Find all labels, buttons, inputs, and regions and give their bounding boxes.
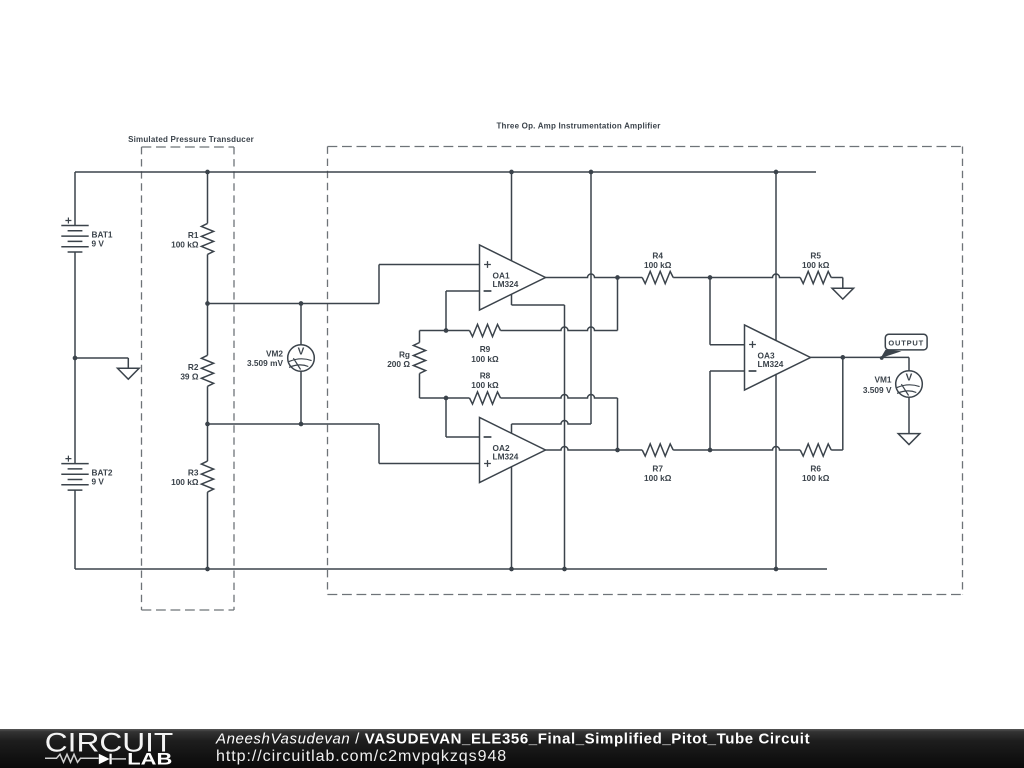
wire R5 to ground bbox=[831, 278, 843, 289]
svg-text:VM2: VM2 bbox=[266, 348, 283, 358]
resistor R6 bbox=[800, 444, 831, 456]
svg-text:R2: R2 bbox=[188, 362, 199, 372]
svg-text:100 kΩ: 100 kΩ bbox=[644, 473, 672, 483]
wire OA3 V- stem to bottom rail bbox=[775, 374, 777, 569]
resistor R3 bbox=[201, 461, 213, 492]
voltmeter VM1 bbox=[896, 371, 923, 398]
wire node D to R6 bbox=[710, 447, 800, 450]
ground VM1 bbox=[898, 434, 920, 445]
flag OUTPUT bbox=[885, 334, 927, 350]
wire bottom negative rail bbox=[75, 568, 827, 570]
wire R2 to node B bbox=[207, 386, 209, 424]
svg-text:100 kΩ: 100 kΩ bbox=[802, 473, 830, 483]
node OA1 output bbox=[615, 275, 620, 280]
wire OA2 V- vertical bbox=[590, 172, 592, 424]
svg-text:R3: R3 bbox=[188, 468, 199, 478]
svg-text:39 Ω: 39 Ω bbox=[180, 371, 199, 381]
node output (R6 feedback) bbox=[840, 355, 845, 360]
svg-text:100 kΩ: 100 kΩ bbox=[171, 477, 199, 487]
node OA2 output bbox=[615, 448, 620, 453]
battery BAT2 bbox=[61, 464, 88, 491]
svg-text:3.509 mV: 3.509 mV bbox=[247, 358, 283, 368]
svg-text:R8: R8 bbox=[480, 371, 491, 381]
wire VM1 to ground bbox=[908, 397, 910, 433]
svg-text:100 kΩ: 100 kΩ bbox=[471, 380, 499, 390]
resistor Rg bbox=[413, 343, 425, 374]
wire R7 to node D bbox=[673, 449, 710, 451]
wire R9 to OA1 output node bbox=[617, 278, 619, 331]
wire Rg top jog bbox=[420, 331, 447, 343]
wire node C to OA3 + bbox=[710, 278, 745, 345]
wire R4 to node C bbox=[673, 277, 710, 279]
battery BAT1 bbox=[61, 226, 88, 253]
wire node D to OA3 - bbox=[710, 371, 745, 450]
wire VM2 bottom bbox=[300, 371, 302, 424]
CircuitLab logo diode symbol bbox=[99, 754, 110, 765]
resistor R9 and wire bbox=[446, 330, 470, 332]
wire VM2 top bbox=[300, 304, 302, 345]
ground R5 bbox=[832, 288, 854, 299]
wire OA1 V- to bottom rail bbox=[512, 294, 565, 569]
resistor R5 bbox=[800, 271, 831, 283]
voltmeter VM2 bbox=[288, 345, 315, 372]
wire OA3 output bbox=[811, 356, 910, 358]
svg-text:100 kΩ: 100 kΩ bbox=[471, 354, 499, 364]
node OA3 V+ on rail bbox=[774, 170, 779, 175]
svg-text:AneeshVasudevan / VASUDEVAN_EL: AneeshVasudevan / VASUDEVAN_ELE356_Final… bbox=[215, 731, 810, 748]
resistor R7 bbox=[642, 444, 673, 456]
wire OA1 output bbox=[546, 274, 643, 277]
wire OA2 - input bbox=[446, 398, 480, 437]
wire OA1 V+ stem bbox=[511, 172, 513, 261]
svg-text:LM324: LM324 bbox=[493, 279, 519, 289]
op-amp OA1 bbox=[480, 245, 546, 310]
wire top positive rail bbox=[75, 171, 816, 173]
svg-text:V: V bbox=[298, 347, 305, 358]
resistor R2 bbox=[201, 355, 213, 386]
dashed box: Three Op. Amp Instrumentation Amplifier bbox=[328, 147, 963, 595]
node R3 bottom on rail bbox=[205, 567, 210, 572]
resistor R4 bbox=[642, 271, 673, 283]
node Rg top bbox=[444, 328, 449, 333]
wire R3 to bottom rail bbox=[207, 492, 209, 569]
ground left bbox=[118, 368, 140, 379]
wire OA2 V+ stem to bottom rail bbox=[511, 467, 513, 569]
svg-text:OUTPUT: OUTPUT bbox=[888, 339, 924, 348]
op-amp OA2 bbox=[480, 418, 546, 483]
node VM2 top tap bbox=[299, 301, 304, 306]
svg-text:R5: R5 bbox=[810, 251, 821, 261]
wire OA3 V+ stem bbox=[775, 172, 777, 341]
svg-text:http://circuitlab.com/c2mvpqkz: http://circuitlab.com/c2mvpqkzqs948 bbox=[216, 748, 507, 765]
svg-text:Three Op. Amp Instrumentation: Three Op. Amp Instrumentation Amplifier bbox=[496, 121, 660, 130]
svg-text:Rg: Rg bbox=[399, 349, 410, 359]
svg-text:100 kΩ: 100 kΩ bbox=[802, 260, 830, 270]
wire left column top (rail to BAT1) bbox=[74, 172, 76, 226]
svg-text:Simulated Pressure Transducer: Simulated Pressure Transducer bbox=[128, 135, 254, 144]
svg-text:VM1: VM1 bbox=[874, 375, 891, 385]
wire BAT2 bottom to rail bbox=[74, 490, 76, 569]
dashed box: Simulated Pressure Transducer bbox=[142, 147, 235, 610]
wire BAT1 bottom to BAT2 top bbox=[74, 252, 76, 463]
wire OA1 - input bbox=[446, 291, 480, 331]
wire OA2 V- stem bbox=[511, 424, 513, 433]
wire node A to R2 bbox=[207, 304, 209, 356]
wire R8 to OA2 output node bbox=[617, 398, 619, 450]
resistor R8 and wire bbox=[446, 397, 470, 399]
svg-text:9 V: 9 V bbox=[92, 238, 105, 248]
node C (R4-R5 node) bbox=[708, 275, 713, 280]
node OA1 V+ on rail bbox=[509, 170, 514, 175]
node battery midpoint bbox=[73, 356, 78, 361]
svg-text:LM324: LM324 bbox=[493, 452, 519, 462]
wire node B to OA2 + bbox=[208, 424, 480, 464]
svg-text:200 Ω: 200 Ω bbox=[387, 359, 410, 369]
svg-text:3.509 V: 3.509 V bbox=[863, 385, 892, 395]
wire node C to R5 bbox=[710, 274, 800, 277]
svg-text:R9: R9 bbox=[480, 344, 491, 354]
node VM2 bottom tap bbox=[299, 422, 304, 427]
svg-text:9 V: 9 V bbox=[92, 476, 105, 486]
CircuitLab logo resistor symbol bbox=[45, 754, 99, 762]
footer bar bbox=[0, 729, 1024, 768]
svg-text:R7: R7 bbox=[652, 463, 663, 473]
node B (R2-R3 junction) bbox=[205, 422, 210, 427]
wire output to VM1 bbox=[908, 357, 910, 370]
node R1 top on rail bbox=[205, 170, 210, 175]
wire node A to OA1 + bbox=[208, 265, 480, 304]
svg-text:100 kΩ: 100 kΩ bbox=[171, 239, 199, 249]
wire Rg bottom jog bbox=[420, 374, 447, 399]
wire to ground left bbox=[75, 358, 128, 368]
svg-text:V: V bbox=[906, 373, 913, 384]
wire rail to R1 bbox=[207, 172, 209, 223]
node OA3 V- on bottom rail bbox=[774, 567, 779, 572]
op-amp OA3 bbox=[745, 325, 811, 390]
svg-text:LM324: LM324 bbox=[758, 359, 784, 369]
node Rg bottom bbox=[444, 396, 449, 401]
wire R6 to output node bbox=[831, 357, 843, 450]
svg-text:R6: R6 bbox=[810, 463, 821, 473]
resistor R1 bbox=[201, 223, 213, 254]
wire OA2 V- horizontal bbox=[512, 421, 592, 425]
wire R1 to node A bbox=[207, 254, 209, 303]
node D (R7-R6 node) bbox=[708, 448, 713, 453]
svg-text:LAB: LAB bbox=[127, 750, 172, 768]
node OA1 V- on bottom rail bbox=[562, 567, 567, 572]
svg-text:100 kΩ: 100 kΩ bbox=[644, 260, 672, 270]
wire OA2 output bbox=[546, 447, 643, 450]
node A (R1-R2 junction) bbox=[205, 301, 210, 306]
node OA2 V+ on bottom rail bbox=[509, 567, 514, 572]
node OA2 V- rail tap bbox=[589, 170, 594, 175]
svg-text:R4: R4 bbox=[652, 251, 663, 261]
wire node B to R3 bbox=[207, 424, 209, 461]
svg-text:R1: R1 bbox=[188, 230, 199, 240]
